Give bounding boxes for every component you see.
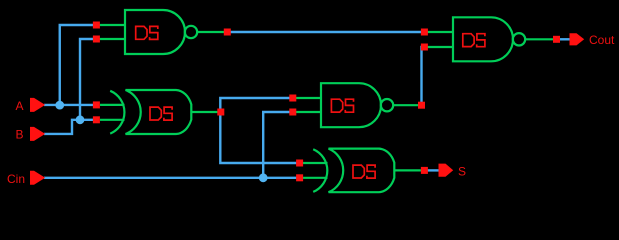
svg-text:Cin: Cin <box>7 172 25 186</box>
nand-gate U3 pin stubs <box>427 32 553 47</box>
wire XOR U2 output down to XOR U5 in1 <box>220 112 298 163</box>
pin square U2 in1 <box>93 101 100 108</box>
nand-gate U1 pin stubs <box>99 25 224 39</box>
xor-gate U2 body <box>126 90 192 134</box>
pin square U5 out <box>421 167 428 174</box>
pin square U1 in1 <box>93 22 100 29</box>
wire Cin net: port Cin to XOR U5 in2 <box>44 177 298 179</box>
xor-gate U5 extra arc <box>313 149 327 192</box>
svg-text:A: A <box>16 99 24 113</box>
junction node on B net <box>76 115 85 124</box>
input port A <box>30 98 45 112</box>
pin square U2 in2 <box>93 116 100 123</box>
output port S <box>439 164 454 177</box>
pin square U5 in1 <box>296 160 303 167</box>
wire A net vertical: junction up to NAND U1 in1 <box>60 25 94 105</box>
label DS of U2 <box>150 107 172 120</box>
junction node on Cin net <box>259 173 268 182</box>
nand-gate U1 body <box>125 10 197 54</box>
nand-gate U3 body <box>453 17 525 61</box>
pin square U4 in2 <box>289 109 296 116</box>
label DS of U5 <box>353 165 375 178</box>
svg-text:Cout: Cout <box>589 33 615 47</box>
label DS of U3 <box>463 34 485 47</box>
junction node on A net <box>55 101 64 110</box>
pin square U2 out <box>217 109 224 116</box>
pin square U5 in2 <box>296 174 303 181</box>
wire NAND U4 output up to NAND U3 in2 <box>422 47 425 105</box>
pin square U1 out <box>224 29 231 36</box>
wire NAND U1 output to NAND U3 in1 <box>229 31 422 33</box>
xor-gate U2 pin stubs <box>100 105 218 120</box>
xor-gate U2 extra arc <box>110 91 124 134</box>
xor-gate U5 pin stubs <box>303 163 421 178</box>
wire A net: port A to XOR U2 in1 <box>44 104 94 106</box>
svg-text:S: S <box>458 165 466 179</box>
label DS of U4 <box>331 99 353 112</box>
wire Cin net vertical: junction up to NAND U4 in2 <box>263 112 291 178</box>
pin square U1 in2 <box>93 36 100 43</box>
wire NAND U3 output to port Cout <box>558 38 571 40</box>
pin square U3 in2 <box>421 44 428 51</box>
output port Cout <box>570 33 585 45</box>
nand-gate U4 body <box>321 83 393 127</box>
svg-text:B: B <box>16 127 24 141</box>
nand-gate U4 pin stubs <box>295 98 418 112</box>
label DS of U1 <box>136 26 158 39</box>
pin square U3 out <box>553 36 560 43</box>
wire B net: port B to XOR U2 in2 <box>44 120 94 134</box>
pin square U3 in1 <box>421 29 428 36</box>
pin square U4 out <box>418 102 425 109</box>
pin square U4 in1 <box>289 95 296 102</box>
input port B <box>30 127 45 141</box>
input port Cin <box>30 171 45 185</box>
xor-gate U5 body <box>329 149 395 193</box>
wire B net vertical: junction up to NAND U1 in2 <box>80 39 94 120</box>
wire XOR U2 output up to NAND U4 in1 <box>220 98 291 112</box>
wire XOR U5 output to port S <box>426 169 439 171</box>
